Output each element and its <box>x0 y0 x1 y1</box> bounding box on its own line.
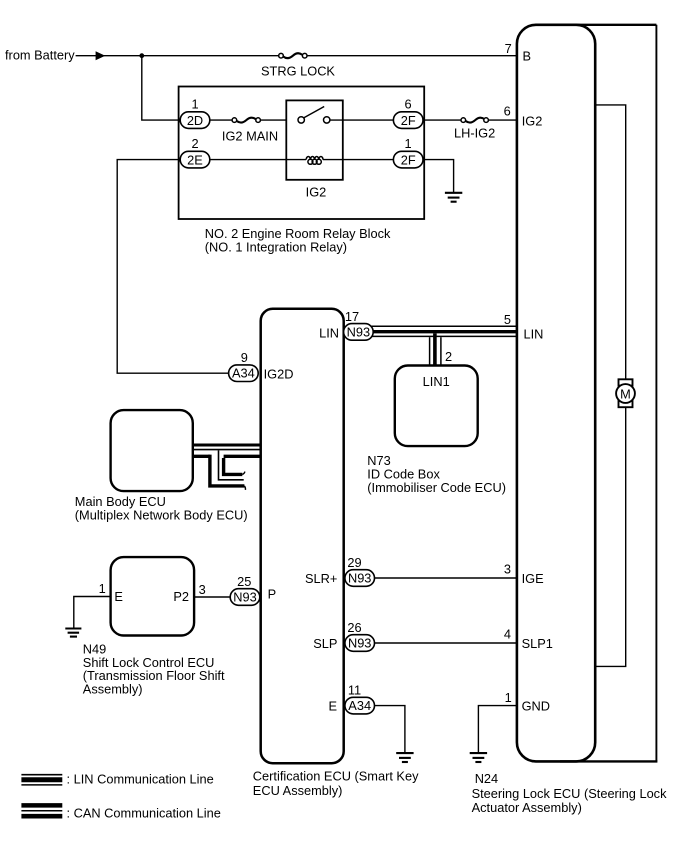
svg-text:3: 3 <box>504 562 511 577</box>
svg-text:ECU Assembly): ECU Assembly) <box>253 783 343 798</box>
motor supply loop bottom <box>560 760 657 762</box>
fuse LH-IG2 <box>466 118 485 123</box>
CAN communication line <box>193 444 261 447</box>
LIN branch to LIN1 <box>429 337 431 365</box>
svg-text:11: 11 <box>348 683 361 698</box>
svg-text:(NO. 1 Integration Relay): (NO. 1 Integration Relay) <box>205 239 347 254</box>
wire 2D to fuse <box>210 119 232 121</box>
motor supply loop top <box>560 24 656 26</box>
svg-text:N93: N93 <box>348 571 371 586</box>
ground (relay block) <box>445 192 462 194</box>
fuse STRG LOCK <box>283 53 302 58</box>
svg-text:: LIN Communication Line: : LIN Communication Line <box>67 772 214 787</box>
SLP row wire <box>373 642 517 644</box>
svg-text:N93: N93 <box>347 324 370 339</box>
svg-text:N93: N93 <box>233 590 256 605</box>
svg-text:LIN1: LIN1 <box>423 374 450 389</box>
svg-text:(Multiplex Network Body ECU): (Multiplex Network Body ECU) <box>75 508 248 523</box>
CAN branch stub <box>210 455 245 486</box>
svg-text:IG2: IG2 <box>306 184 327 199</box>
svg-text:2F: 2F <box>401 113 416 128</box>
relay switch contacts <box>304 107 324 118</box>
svg-text:2: 2 <box>191 136 198 151</box>
battery feed arrowhead <box>96 51 106 60</box>
svg-text:4: 4 <box>504 626 511 641</box>
motor supply loop right <box>655 25 657 762</box>
wire switch to 2F <box>330 119 394 121</box>
ID code box LIN1 <box>395 366 478 447</box>
svg-text:7: 7 <box>505 41 512 56</box>
svg-text:29: 29 <box>347 555 361 570</box>
wire 2E row left segment <box>181 159 306 161</box>
svg-text:1: 1 <box>404 136 411 151</box>
svg-text:STRG LOCK: STRG LOCK <box>261 64 335 79</box>
svg-text:: CAN Communication Line: : CAN Communication Line <box>67 806 221 821</box>
svg-text:IG2 MAIN: IG2 MAIN <box>222 128 278 143</box>
legend CAN line symbol <box>21 803 62 808</box>
wire coil to 2F <box>323 159 394 161</box>
svg-text:2F: 2F <box>401 152 416 167</box>
svg-text:IGE: IGE <box>522 571 544 586</box>
svg-text:LIN: LIN <box>319 326 339 341</box>
wire 2F pin1 to ground <box>423 160 454 192</box>
SLR+ row wire <box>373 577 517 579</box>
svg-text:E: E <box>114 589 123 604</box>
svg-text:E: E <box>328 698 337 713</box>
svg-text:2E: 2E <box>187 152 203 167</box>
svg-text:SLP1: SLP1 <box>522 636 553 651</box>
svg-text:LIN: LIN <box>524 326 544 341</box>
relay block NO.2 engine room <box>179 87 425 220</box>
svg-text:1: 1 <box>99 581 106 596</box>
svg-text:9: 9 <box>241 350 248 365</box>
svg-text:(Immobiliser Code ECU): (Immobiliser Code ECU) <box>367 480 506 495</box>
svg-text:SLP: SLP <box>313 636 337 651</box>
ground (steering GND) <box>470 752 487 754</box>
LIN communication line <box>371 325 517 327</box>
svg-text:P: P <box>268 586 277 601</box>
svg-text:17: 17 <box>345 309 359 324</box>
svg-text:5: 5 <box>504 312 511 327</box>
svg-text:6: 6 <box>404 96 411 111</box>
svg-text:Actuator Assembly): Actuator Assembly) <box>472 800 582 815</box>
svg-text:LH-IG2: LH-IG2 <box>454 126 495 141</box>
wire fuse to pin IG2 <box>488 119 517 121</box>
svg-text:26: 26 <box>347 620 361 635</box>
fuse IG2 MAIN <box>237 118 256 123</box>
wire battery feed right to pin B <box>307 55 517 57</box>
svg-text:Assembly): Assembly) <box>83 682 143 697</box>
svg-text:3: 3 <box>199 582 206 597</box>
svg-text:2D: 2D <box>187 113 203 128</box>
svg-text:1: 1 <box>191 96 198 111</box>
svg-text:25: 25 <box>237 574 251 589</box>
relay coil <box>306 157 323 160</box>
motor branch upper wire <box>595 105 626 384</box>
svg-text:from Battery: from Battery <box>5 47 75 62</box>
svg-text:2: 2 <box>445 349 452 364</box>
wire 2F to fuse LH-IG2 <box>423 119 461 121</box>
svg-text:1: 1 <box>505 690 512 705</box>
svg-text:P2: P2 <box>173 589 189 604</box>
motor branch lower wire <box>595 403 626 666</box>
certification ECU box <box>261 309 344 763</box>
junction node battery <box>139 53 144 58</box>
svg-text:IG2D: IG2D <box>264 366 294 381</box>
svg-text:A34: A34 <box>232 366 255 381</box>
steering lock ECU box <box>517 25 595 762</box>
svg-text:Certification ECU (Smart Key: Certification ECU (Smart Key <box>253 769 419 784</box>
svg-text:N93: N93 <box>348 636 371 651</box>
svg-text:6: 6 <box>504 103 511 118</box>
svg-text:M: M <box>620 387 631 402</box>
shift lock ECU box <box>111 557 195 635</box>
wire battery feed left <box>76 55 279 57</box>
svg-text:IG2: IG2 <box>522 113 543 128</box>
wire fuse to relay box <box>260 119 301 121</box>
ground (certification E) <box>396 752 413 754</box>
ground (shift lock) <box>65 627 81 629</box>
svg-text:B: B <box>523 48 532 63</box>
svg-text:A34: A34 <box>348 698 371 713</box>
main body ECU box <box>111 410 193 491</box>
wire battery junction down to 2D <box>142 56 181 120</box>
svg-text:SLR+: SLR+ <box>305 571 337 586</box>
relay IG2 inner box <box>286 100 343 179</box>
motor M brushes <box>619 379 633 385</box>
svg-text:N24: N24 <box>475 771 498 786</box>
wire 2E to IG2D <box>117 160 229 374</box>
motor M circle <box>616 384 635 403</box>
svg-text:GND: GND <box>522 698 550 713</box>
legend LIN line symbol <box>21 774 62 776</box>
